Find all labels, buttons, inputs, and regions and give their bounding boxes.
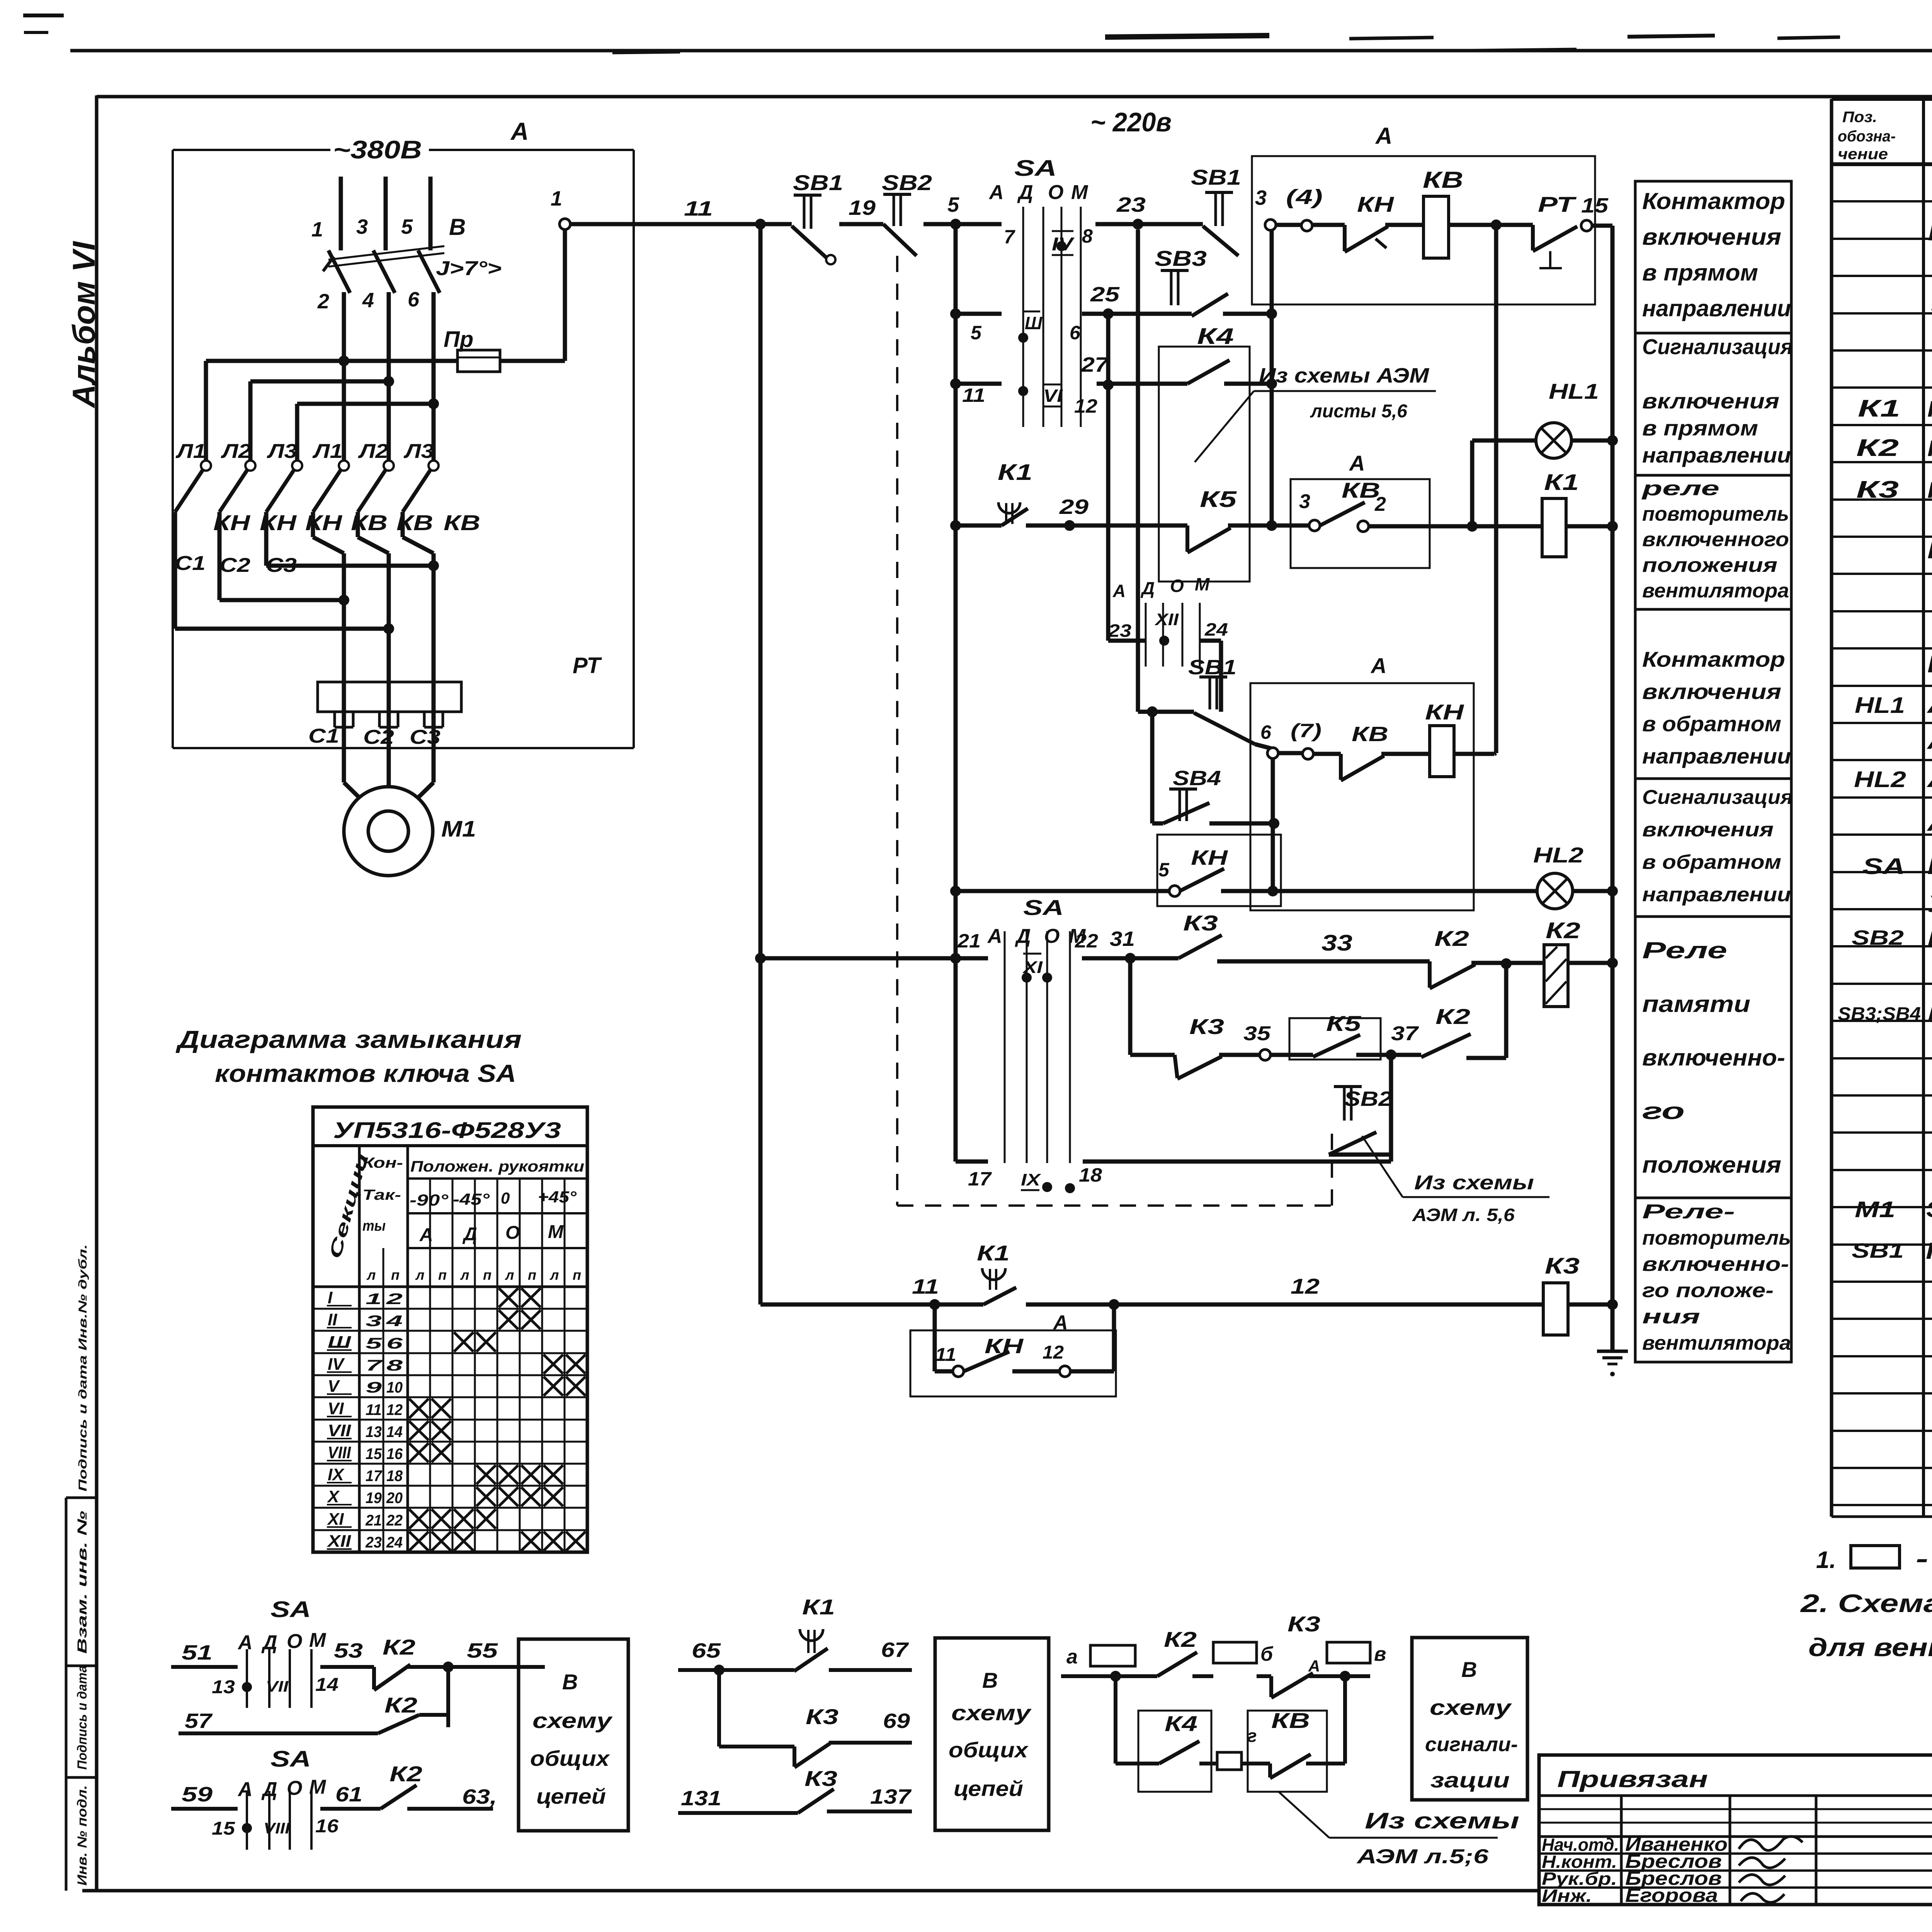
node 11 (fragment): [912, 1275, 940, 1310]
svg-text:12: 12: [1043, 1342, 1064, 1363]
svg-text:- Заполняется при привязке: - Заполняется при привязке проекта.: [1916, 1544, 1932, 1573]
wire 15 to right bus: [1592, 224, 1612, 228]
svg-text:HL1: HL1: [1855, 693, 1905, 718]
label ~380В: [333, 135, 422, 164]
roman IV: [1052, 231, 1075, 255]
wire R7 to SA XI: [956, 956, 988, 961]
fragment wire 137: [827, 1785, 912, 1811]
svg-text:Выключатель КЕ011У3 исп. 4: Выключатель КЕ011У3 исп. 4: [1927, 1001, 1932, 1027]
svg-text:К3: К3: [804, 1766, 837, 1791]
label КВ contact 3: [444, 510, 480, 535]
svg-text:М: М: [1071, 181, 1088, 204]
roman VI: [1043, 384, 1063, 406]
svg-text:К2: К2: [1856, 435, 1899, 461]
fragment SA-VII label SA: [270, 1597, 311, 1622]
wire node11 down into box: [935, 1304, 953, 1371]
terminal 5 (КН aux): [1158, 859, 1180, 896]
svg-text:ХII: ХII: [1154, 610, 1179, 629]
svg-text:А: А: [1349, 451, 1365, 475]
node 1 terminal: [551, 187, 570, 230]
label КН contact 2: [260, 510, 297, 535]
label С2 lower: [363, 726, 394, 748]
function label box Реле-повторитель включенного положения вентилятора: [1635, 1198, 1791, 1362]
junction HL1 bus: [1607, 435, 1618, 446]
svg-text:Так-: Так-: [362, 1187, 401, 1203]
labels А Д О М mid: [1112, 574, 1210, 601]
wire R3 stub: [956, 382, 1002, 386]
switch SA sections XI IX columns: [1005, 931, 1070, 1163]
fragment wire а row: [1061, 1671, 1157, 1682]
svg-text:зации: зации: [1430, 1768, 1510, 1792]
contact К1 latching (repeat): [977, 1241, 1016, 1304]
bus junction vertical x3291: [1270, 230, 1274, 526]
svg-text:в обратном: в обратном: [1642, 711, 1781, 736]
junction R2 on node5 bus: [950, 308, 961, 319]
svg-text:(4): (4): [1286, 185, 1323, 209]
svg-text:К4: К4: [1165, 1711, 1197, 1736]
diagram row &#1064; crosses: [454, 1332, 496, 1352]
fragment 65 vertical: [719, 1670, 794, 1747]
svg-text:Д: Д: [1017, 181, 1033, 204]
wire КН aux mid: [1012, 1369, 1060, 1374]
svg-text:А: А: [988, 181, 1004, 204]
wire SB2 branch: [1329, 1055, 1391, 1162]
svg-text:включения: включения: [1642, 679, 1781, 704]
svg-text:Панель управления и сигнализац: Панель управления и сигнализации: [1927, 651, 1932, 678]
fragment wire 131: [678, 1787, 798, 1813]
note Из схемы АЭМ листы 5,6: [1195, 364, 1436, 462]
svg-text:К3: К3: [1183, 911, 1218, 935]
crossover wire КН1 to С1: [175, 512, 394, 634]
svg-text:А: А: [1308, 1657, 1320, 1675]
terminal 3 (КВ aux): [1299, 490, 1320, 531]
wire КН coil to feeder: [1454, 753, 1496, 754]
svg-text:Реле-: Реле-: [1642, 1201, 1735, 1223]
svg-text:35: 35: [1243, 1022, 1271, 1045]
svg-text:SB1: SB1: [1191, 165, 1241, 189]
svg-text:цепей: цепей: [536, 1784, 606, 1808]
diagram table outer: [313, 1107, 587, 1552]
node 29: [1059, 495, 1088, 531]
svg-text:вентилятора: вентилятора: [1642, 580, 1789, 602]
node 25: [1090, 283, 1120, 319]
sheet frame top border: [97, 95, 1932, 99]
svg-text:ЭлектродвигательВАС014-16-32У1: ЭлектродвигательВАС014-16-32У1: [1926, 1197, 1932, 1222]
РТ heater element 1: [335, 682, 353, 727]
svg-text:положения: положения: [1642, 1152, 1781, 1178]
wire К2 coil to bus: [1568, 961, 1612, 965]
contact К2 NC fragment1: [374, 1635, 415, 1690]
SA XI closed dots: [1022, 973, 1052, 983]
wire phase L2 lower: [387, 292, 391, 461]
diagram л п subheader: [366, 1248, 581, 1552]
breaker QF blade 2: [373, 250, 395, 293]
entry SB2 Выключатель КЕ011УЗ исп.2: [1852, 925, 1932, 951]
pin 1: [311, 218, 323, 241]
contact КВ aux NO: [1320, 478, 1380, 526]
svg-text:Д: Д: [1015, 925, 1031, 947]
svg-text:17: 17: [968, 1168, 992, 1190]
svg-text:VI: VI: [1043, 386, 1063, 406]
svg-text:го положе-: го положе-: [1642, 1279, 1774, 1302]
svg-text:SB1: SB1: [793, 170, 843, 195]
fragment SA-VIII columns: [247, 1791, 311, 1850]
svg-text:л: л: [415, 1267, 424, 1283]
svg-text:9: 9: [366, 1379, 382, 1396]
svg-text:К2: К2: [1434, 926, 1469, 951]
coil К1 (repeat relay fwd): [1542, 470, 1579, 557]
label ~220В: [1090, 107, 1172, 137]
svg-text:SB4: SB4: [1173, 767, 1221, 790]
svg-text:АС12011У2;~220в; ТУ16-535.930-: АС12011У2;~220в; ТУ16-535.930-76: [1926, 728, 1932, 754]
wire SA XII out: [1200, 641, 1221, 712]
svg-text:14: 14: [386, 1423, 403, 1440]
wire К2 seal up to R7: [1466, 964, 1506, 1058]
junction R4 x3291: [1266, 520, 1277, 531]
svg-text:16: 16: [315, 1816, 338, 1837]
label С3 lower: [410, 726, 440, 748]
button SB2 remote (dashed): [1329, 1087, 1392, 1155]
pin 2: [317, 290, 329, 313]
fragment wire 51: [171, 1641, 238, 1667]
svg-text:л: л: [460, 1267, 469, 1283]
svg-text:обозна-: обозна-: [1838, 128, 1896, 145]
wire 27 segment: [1081, 353, 1187, 384]
diagram row &#1064; labels: [327, 1333, 403, 1352]
button SB1 stop: [792, 170, 843, 264]
svg-text:включенно-: включенно-: [1642, 1044, 1785, 1070]
svg-text:SB1: SB1: [1852, 1239, 1904, 1262]
labels А Д О М bottom: [987, 925, 1086, 947]
parts table outer and columns: [1832, 99, 1932, 1517]
wire HL1 left: [1472, 439, 1537, 443]
wire КВ1 down to РТ: [313, 512, 344, 682]
button SB3 start fwd: [1155, 246, 1228, 316]
labels А Д О М top: [988, 181, 1088, 204]
note 2 Схема разработана для вентилятора N: [1799, 1589, 1932, 1623]
svg-text:направлении: направлении: [1642, 443, 1791, 467]
svg-text:21: 21: [365, 1512, 382, 1529]
svg-text:63,: 63,: [462, 1785, 497, 1808]
svg-text:6: 6: [1260, 721, 1272, 743]
fragment SA-VIII closed dot and pins: [212, 1816, 338, 1839]
svg-text:Привязан: Привязан: [1557, 1766, 1708, 1792]
svg-text:11: 11: [962, 384, 985, 406]
svg-text:23: 23: [1116, 193, 1146, 216]
wire R4 start: [956, 524, 1002, 528]
button SB1 post (3rd): [1188, 656, 1255, 744]
fragment wire 65: [678, 1639, 724, 1675]
diagram row XI crosses: [409, 1509, 496, 1529]
diagram row VII labels: [327, 1421, 403, 1440]
contact К5 NC: [1187, 487, 1237, 553]
wire A drop: [204, 361, 208, 461]
svg-text:листы 5,6: листы 5,6: [1310, 401, 1407, 422]
contact КВ NC (reverse interlock): [1341, 723, 1388, 781]
svg-text:4: 4: [362, 289, 374, 312]
wire К4 to bus: [1224, 382, 1272, 386]
svg-text:КВ: КВ: [1342, 478, 1380, 502]
label Л3 b: [403, 440, 434, 463]
entry HL1 Арматура светосигнальная: [1855, 690, 1932, 718]
svg-text:1.: 1.: [1816, 1547, 1836, 1573]
label С1 lower: [308, 725, 339, 747]
label С3 upper: [266, 554, 297, 577]
title Н.конт Бреслов: [1542, 1850, 1785, 1872]
svg-text:37: 37: [1391, 1022, 1419, 1045]
label Л3 a: [266, 440, 297, 463]
function label box Контактор включения в обратном направлении: [1635, 609, 1791, 779]
svg-text:14: 14: [315, 1675, 338, 1695]
svg-text:Из схемы: Из схемы: [1365, 1808, 1519, 1833]
svg-text:3: 3: [1255, 186, 1267, 209]
mid feeder vertical (КВ right to КН coil): [1494, 225, 1498, 753]
svg-text:Диаграмма замыкания: Диаграмма замыкания: [175, 1026, 522, 1053]
svg-text:22: 22: [386, 1512, 403, 1529]
svg-text:КВ: КВ: [1271, 1708, 1310, 1733]
diagram row V labels: [327, 1377, 403, 1396]
terminal 2 (КВ aux): [1358, 493, 1386, 532]
contact КН NC (fwd interlock): [1345, 192, 1395, 252]
svg-text:5: 5: [401, 215, 413, 238]
svg-text:КН: КН: [1425, 700, 1464, 724]
fragment SA-VIII А Д О М: [237, 1776, 327, 1801]
wire 12 long: [1114, 1274, 1543, 1304]
block A box around fwd contactor: [1252, 123, 1595, 304]
junction IX on bus: [950, 953, 961, 964]
svg-text:схему: схему: [1430, 1695, 1512, 1719]
contactor terminal circle 5: [384, 461, 394, 471]
svg-text:Поз.: Поз.: [1842, 109, 1877, 126]
bus wire node11 vertical: [759, 224, 763, 1304]
svg-text:для вентилятора N: для вентилятора N: [1808, 1633, 1932, 1662]
label КВ contact 1: [351, 510, 388, 535]
svg-text:ния: ния: [1642, 1306, 1700, 1328]
fragment 55 vertical: [446, 1667, 450, 1727]
svg-text:КН: КН: [985, 1335, 1024, 1358]
svg-text:л: л: [549, 1267, 559, 1283]
wire К1 to node29: [1026, 524, 1070, 528]
svg-text:повторитель: повторитель: [1642, 503, 1789, 526]
svg-text:В: В: [982, 1668, 998, 1692]
diagram title: [175, 1026, 522, 1087]
svg-text:л: л: [505, 1267, 514, 1283]
fragment К1 contact with arc (65-67): [800, 1595, 835, 1653]
thermal relay РТ heaters box: [318, 653, 602, 712]
svg-text:13: 13: [366, 1423, 382, 1440]
wire HL2 to bus: [1573, 889, 1612, 893]
svg-text:4: 4: [386, 1313, 403, 1330]
svg-text:5: 5: [366, 1335, 382, 1352]
svg-text:п: п: [438, 1267, 447, 1283]
svg-text:РелеРПЛ-12204Б,-220В,ТУ16-523.: РелеРПЛ-12204Б,-220В,ТУ16-523.554-78: [1927, 478, 1932, 503]
svg-text:15: 15: [212, 1818, 235, 1839]
wire SA-IV to node23: [1095, 222, 1138, 226]
breaker QF blade 3: [418, 250, 440, 293]
contactor blade 4: [313, 470, 341, 512]
svg-text:~380В: ~380В: [333, 135, 422, 164]
pin 24 (SA XII): [1204, 619, 1228, 639]
title Инж. Егорова: [1542, 1884, 1784, 1906]
svg-text:Взам. инв. №: Взам. инв. №: [75, 1511, 90, 1654]
wire left bus corner R8: [760, 1303, 935, 1307]
terminal 15: [1581, 194, 1609, 231]
svg-text:А: А: [1370, 653, 1386, 678]
svg-text:27: 27: [1081, 353, 1110, 376]
junction R8 bus: [1607, 1299, 1618, 1310]
svg-text:59: 59: [182, 1783, 213, 1806]
wire node31 to К3: [1130, 956, 1179, 961]
contact К3 NO fragment (131-137): [798, 1766, 837, 1813]
diagram row VI labels: [327, 1399, 403, 1418]
svg-text:11: 11: [366, 1401, 382, 1418]
contactor terminal circle 6: [429, 461, 439, 471]
wire R7 from left bus: [760, 956, 956, 961]
pin 5 (SA III): [971, 322, 982, 344]
wire junction to HL2: [1273, 889, 1537, 893]
svg-text:Ш: Ш: [328, 1333, 351, 1352]
wire node25 to SB3: [1108, 312, 1192, 316]
pin 12 (SA VI): [1074, 395, 1097, 417]
РТ heater element 2: [379, 682, 398, 727]
entry HL2 Арматура светосигнальная: [1854, 765, 1932, 793]
contactor blade 5: [358, 470, 386, 512]
svg-text:SB2: SB2: [1852, 926, 1904, 949]
pin 21: [957, 930, 981, 952]
diagram position column lines: [430, 1179, 565, 1552]
svg-text:SB2: SB2: [1344, 1087, 1392, 1111]
label thermal I>7: [436, 257, 502, 280]
svg-text:в: в: [1374, 1643, 1386, 1665]
fragment wire 69: [829, 1709, 912, 1743]
svg-text:Сигнализация: Сигнализация: [1642, 786, 1793, 809]
fragment wire 53: [320, 1639, 374, 1667]
wire to РТ contact: [1496, 223, 1533, 227]
box В схему общих цепей right: [935, 1638, 1049, 1830]
svg-text:SA: SA: [270, 1597, 311, 1622]
svg-text:КВ: КВ: [1423, 167, 1463, 193]
fragment wire 63: [407, 1785, 497, 1809]
button SB4 start reverse: [1163, 767, 1221, 823]
fragment wire 67: [829, 1638, 912, 1670]
svg-text:М: М: [548, 1222, 564, 1242]
svg-text:Д: Д: [1140, 578, 1155, 598]
svg-text:УП5316-Ф528У3: УП5316-Ф528У3: [333, 1118, 561, 1143]
svg-text:М1: М1: [441, 816, 476, 842]
function label box Контактор включения в прямом направлении: [1635, 181, 1791, 333]
wire node11 to SB1: [760, 222, 792, 226]
contact К2 NO fragment2: [378, 1693, 448, 1733]
junction R4 on node5 bus: [950, 520, 961, 531]
label С2 upper: [219, 554, 250, 577]
svg-text:К3: К3: [1287, 1612, 1320, 1636]
svg-text:включенно-: включенно-: [1642, 1253, 1789, 1276]
wire phase L1 lower: [342, 292, 346, 461]
entry 40Т4УХЛ4 qty 1: [1930, 290, 1932, 319]
svg-text:г: г: [1247, 1726, 1257, 1746]
fragment К1 blade: [719, 1648, 828, 1671]
svg-text:VI: VI: [328, 1399, 344, 1418]
contact К1 latching with arc: [998, 460, 1032, 526]
svg-text:М: М: [1195, 574, 1210, 594]
diagram row X labels: [327, 1487, 403, 1507]
wire C: [297, 398, 439, 409]
label КН contact 3: [305, 510, 343, 535]
svg-text:схему: схему: [951, 1701, 1032, 1725]
label С1 upper: [175, 552, 206, 575]
entry К3 реле: [1856, 474, 1932, 503]
breaker QF blade 1: [328, 250, 350, 293]
svg-text:М1: М1: [1855, 1197, 1895, 1222]
svg-text:Подпись и дата: Подпись и дата: [75, 1665, 90, 1770]
svg-text:19: 19: [366, 1490, 382, 1507]
svg-text:V: V: [328, 1377, 340, 1396]
diagram row II labels: [327, 1310, 403, 1330]
terminal 35: [1243, 1022, 1271, 1060]
svg-text:А: А: [510, 117, 529, 145]
diagram row XI labels: [327, 1510, 403, 1529]
diagram body row lines: [313, 1309, 587, 1530]
svg-text:общих: общих: [530, 1746, 611, 1770]
wire phase L3 top: [429, 177, 433, 250]
svg-text:Инв. № подл.: Инв. № подл.: [75, 1785, 90, 1886]
wire C drop: [295, 404, 299, 461]
svg-text:Реле РП1гУхЛ4,-220В, ТУ16-523.: Реле РП1гУхЛ4,-220В, ТУ16-523.072-75: [1927, 436, 1932, 461]
svg-text:В: В: [449, 214, 466, 240]
svg-text:КВ: КВ: [1352, 723, 1388, 746]
entry АС1201142 qty 1: [1926, 725, 1932, 754]
function label box Сигнализация включения в обратном направлении: [1635, 779, 1793, 917]
svg-text:18: 18: [1079, 1164, 1102, 1186]
svg-text:Положен. рукоятки: Положен. рукоятки: [410, 1158, 584, 1175]
SA III closed dot: [1018, 333, 1028, 343]
svg-text:12: 12: [1291, 1274, 1320, 1298]
svg-text:SA: SA: [1023, 895, 1064, 920]
svg-text:К3: К3: [1545, 1253, 1580, 1279]
svg-text:го: го: [1642, 1098, 1685, 1124]
svg-text:К2: К2: [1546, 918, 1580, 943]
contact К2 NO (seal): [1396, 1004, 1471, 1057]
svg-text:а: а: [1066, 1646, 1078, 1668]
junction R7 node5 bus: [950, 953, 961, 964]
svg-text:-45°: -45°: [453, 1190, 490, 1208]
wire 3-(4)-КН: [1276, 223, 1345, 227]
svg-text:13: 13: [212, 1677, 235, 1697]
svg-text:II: II: [328, 1310, 337, 1329]
contactor terminal circle 4: [339, 461, 349, 471]
contactor blade 1: [175, 470, 203, 512]
svg-text:К3: К3: [1856, 476, 1899, 503]
diagram row V crosses: [544, 1377, 585, 1396]
svg-text:(7): (7): [1291, 720, 1321, 742]
wire to К3 second: [1130, 1053, 1175, 1057]
fragment SA-VII А Д О М: [237, 1629, 327, 1654]
motor feed wires: [344, 727, 434, 804]
pin 17: [968, 1168, 992, 1190]
svg-text:чение: чение: [1838, 146, 1888, 163]
svg-text:57: 57: [185, 1709, 213, 1733]
wire R1 node1 to node11: [570, 222, 760, 226]
svg-text:КН: КН: [1191, 846, 1228, 869]
parts table header Поз. обозначение: [1838, 109, 1896, 163]
wire SB3 to bus: [1223, 312, 1272, 316]
svg-text:ты: ты: [362, 1218, 386, 1234]
svg-text:Арматура светосигнальная: Арматура светосигнальная: [1926, 690, 1932, 718]
node 11: [684, 197, 766, 230]
wire phase L1 top: [339, 177, 343, 250]
fragment SA-VIII label SA: [270, 1747, 311, 1772]
svg-text:О: О: [1170, 576, 1184, 596]
